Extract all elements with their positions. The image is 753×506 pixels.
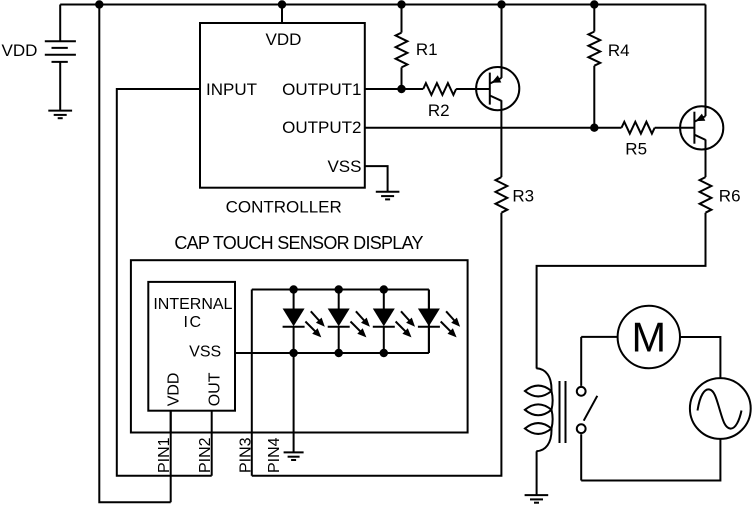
resistor R3: [496, 177, 508, 213]
wire PIN2 OUT vertical: [211, 411, 213, 476]
svg-text:R4: R4: [608, 41, 630, 60]
node junction anode bus x338: [335, 285, 343, 293]
wire AC source bottom loop: [581, 439, 720, 481]
svg-text:PIN4: PIN4: [266, 437, 283, 473]
resistor R5: [622, 122, 655, 134]
node junction anode bus x293: [289, 285, 297, 293]
svg-text:VDD: VDD: [166, 373, 183, 407]
resistor R2: [423, 83, 456, 95]
wire R4 top: [593, 5, 595, 32]
wire left vertical to PIN1: [99, 5, 170, 503]
ground VSS controller: [376, 192, 400, 200]
node junction controller VDD: [278, 0, 286, 8]
svg-text:M: M: [632, 314, 667, 361]
wire VSS to LED cathode bus: [235, 352, 429, 354]
svg-text:VDD: VDD: [266, 30, 302, 49]
internal IC box: [148, 282, 235, 411]
controller box: [200, 23, 365, 188]
svg-text:VDD: VDD: [2, 41, 38, 60]
wire R1 top: [401, 5, 403, 33]
svg-text:R6: R6: [719, 186, 741, 205]
node junction R1 top: [397, 0, 405, 8]
svg-text:OUTPUT2: OUTPUT2: [282, 118, 361, 137]
wire controller VDD pin: [281, 5, 283, 24]
wire PIN3 vertical from anode bus: [251, 290, 253, 476]
svg-text:OUTPUT1: OUTPUT1: [282, 80, 361, 99]
svg-text:VSS: VSS: [189, 344, 221, 361]
relay K1 core: [560, 381, 566, 443]
wire motor to AC source: [680, 337, 721, 378]
ground relay: [525, 495, 549, 503]
wire Q2 collector down: [705, 140, 707, 178]
node junction OUTPUT2-R4: [590, 124, 598, 132]
svg-text:PIN1: PIN1: [156, 437, 173, 473]
wire battery to ground: [59, 62, 61, 111]
wire VSS pin: [365, 166, 388, 192]
wire Q2 emitter to rail corner: [705, 5, 707, 117]
svg-text:R2: R2: [428, 101, 450, 120]
wire OUTPUT1: [365, 88, 423, 90]
ground battery: [48, 111, 72, 119]
node junction cathode bus x383: [380, 349, 388, 357]
node junction anode bus x383: [380, 285, 388, 293]
wire Q1 collector down: [500, 100, 502, 177]
node junction OUTPUT1-R1: [397, 85, 405, 93]
wire PIN1 VDD pin stub: [170, 411, 172, 433]
wire LED4 right edge: [428, 290, 430, 354]
node junction rail-left: [95, 0, 103, 8]
transistor Q1: [476, 67, 519, 110]
LED D2: [328, 290, 370, 354]
svg-text:R1: R1: [416, 40, 438, 59]
node junction cathode bus x338: [335, 349, 343, 357]
wire R2 to Q1 base: [456, 88, 490, 90]
wire R3 bottom to PIN3 net: [252, 213, 502, 476]
ground PIN4: [284, 452, 304, 460]
transistor Q2: [680, 106, 723, 149]
node junction Q1 emitter rail: [497, 0, 505, 8]
wire battery to rail: [59, 5, 61, 42]
display outer box: [131, 260, 468, 432]
wire R1 bottom: [401, 67, 403, 89]
wire switch to motor: [581, 336, 618, 338]
svg-text:CONTROLLER: CONTROLLER: [226, 198, 342, 217]
wire LED anode bus: [252, 289, 429, 291]
node junction cathode bus x293: [289, 349, 297, 357]
wire Q1 emitter to rail: [501, 5, 503, 78]
LED D4: [418, 290, 460, 354]
svg-text:PIN2: PIN2: [197, 437, 214, 473]
wire PIN1 vertical: [170, 411, 172, 503]
resistor R4: [588, 32, 600, 66]
wire R4 bottom: [593, 66, 595, 128]
node junction R4 top: [590, 0, 598, 8]
wire coil to ground: [536, 451, 538, 495]
relay K1 coil: [525, 368, 553, 451]
wire OUTPUT2: [365, 127, 622, 129]
LED D1: [283, 290, 325, 354]
wire top VDD rail: [60, 4, 705, 6]
svg-text:R5: R5: [625, 140, 647, 159]
svg-text:VSS: VSS: [327, 157, 361, 176]
wire R5 to Q2 base: [655, 127, 695, 129]
svg-text:PIN3: PIN3: [238, 437, 255, 473]
relay K1 switch: [577, 337, 598, 481]
svg-text:IC: IC: [184, 314, 203, 331]
svg-text:OUT: OUT: [206, 372, 223, 406]
AC source: [690, 378, 751, 439]
LED D3: [373, 290, 415, 354]
wire PIN4 to ground: [293, 353, 295, 452]
svg-text:INTERNAL: INTERNAL: [153, 296, 232, 313]
wire R6 to relay coil: [537, 213, 706, 369]
battery VDD source: [45, 41, 76, 62]
svg-text:R3: R3: [512, 186, 534, 205]
svg-text:INPUT: INPUT: [206, 80, 257, 99]
resistor R6: [700, 177, 712, 213]
resistor R1: [396, 33, 408, 68]
wire INPUT net: [117, 89, 212, 476]
motor M: [618, 306, 680, 368]
svg-text:CAP TOUCH SENSOR DISPLAY: CAP TOUCH SENSOR DISPLAY: [174, 233, 423, 253]
